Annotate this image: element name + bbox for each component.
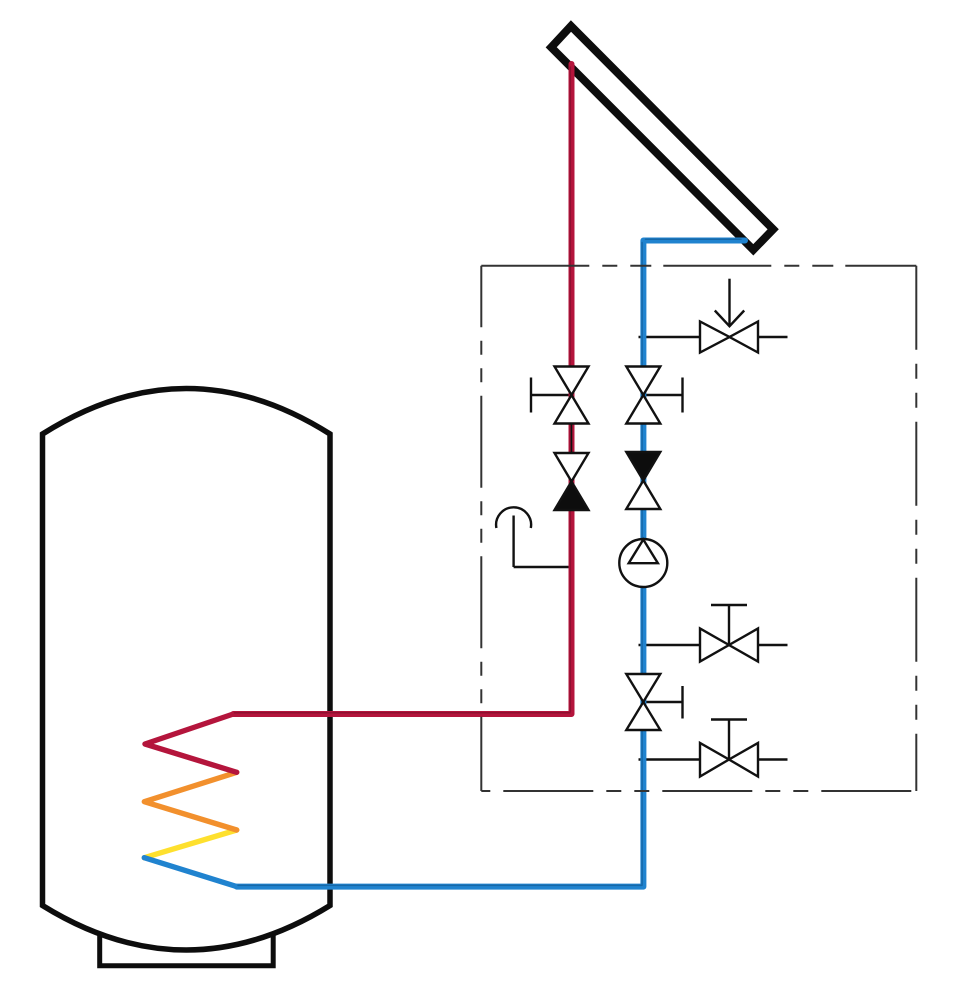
- lower drain valve bowtie: [700, 743, 758, 777]
- stem of blue shut-off valve: [643, 378, 682, 413]
- solar collector panel: [551, 26, 773, 250]
- blue return pipe: [237, 241, 745, 887]
- check valve on red line (gravity brake): [555, 453, 589, 510]
- pipe shading core stripes: [235, 67, 742, 885]
- lower blue shut-off valve: [626, 674, 660, 730]
- fill valve arrow: [715, 279, 744, 327]
- upper drain valve bowtie: [700, 629, 758, 662]
- thin black line between red valves: [571, 424, 573, 454]
- storage tank plinth: [100, 932, 274, 966]
- crimson solar flow pipe: [233, 64, 571, 714]
- stem of lower drain valve: [711, 720, 747, 760]
- shut-off valve on red line: [555, 367, 589, 424]
- stem of upper drain valve: [711, 605, 747, 645]
- storage tank body: [43, 389, 331, 951]
- coil segment yellow: [144, 830, 236, 858]
- coil segment orange: [144, 772, 236, 830]
- shut-off valve on blue line: [626, 367, 660, 424]
- stem of red shut-off valve: [531, 378, 572, 413]
- tee line to lower drain valve: [639, 758, 788, 760]
- pump-group boundary (dash-dot box): [481, 266, 916, 791]
- tee line to upper drain valve: [639, 644, 788, 646]
- fill valve bowtie: [700, 322, 758, 353]
- circulation pump: [619, 539, 667, 587]
- check valve on blue line (gravity brake): [626, 452, 660, 509]
- coil segment blue: [144, 858, 236, 887]
- safety valve symbol: [496, 507, 571, 567]
- tee line to fill valve: [639, 336, 788, 338]
- stem of lower blue shut-off valve: [643, 686, 682, 719]
- coil segment crimson: [145, 714, 237, 772]
